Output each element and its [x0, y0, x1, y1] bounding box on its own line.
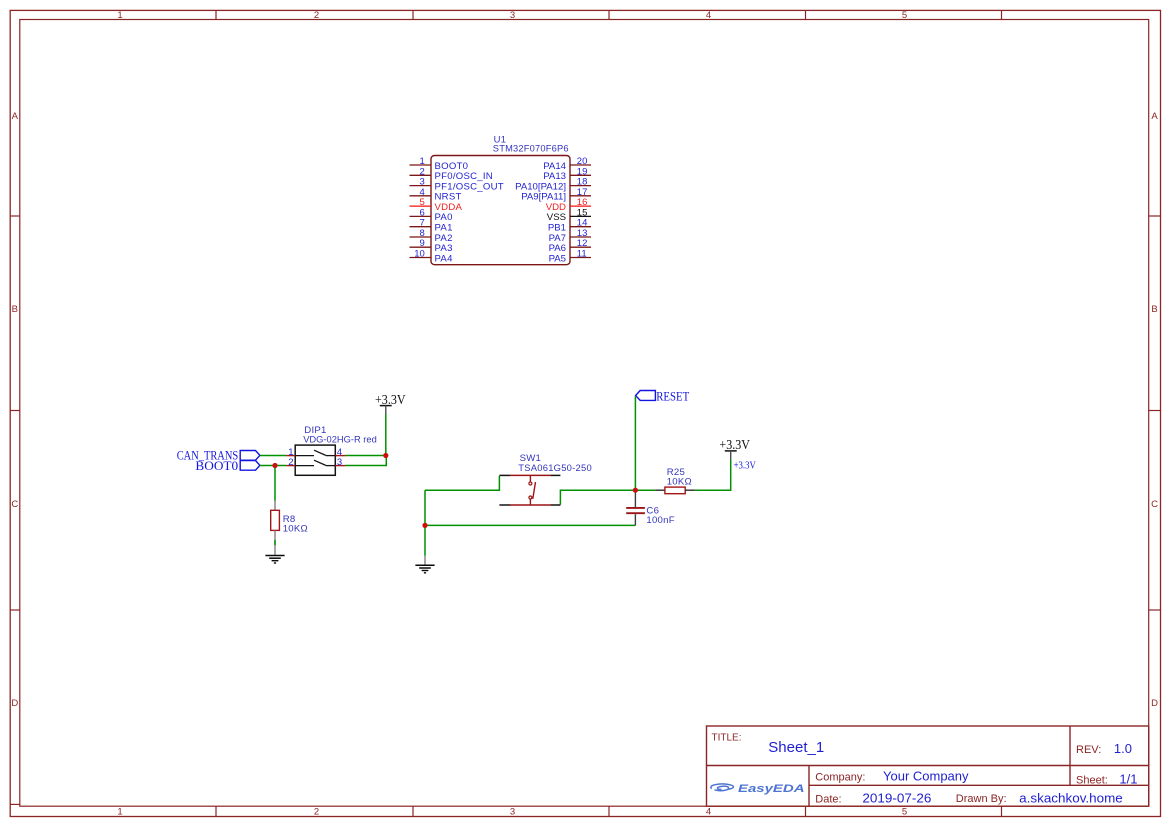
U1 right pin numbers — [577, 156, 588, 260]
svg-text:D: D — [11, 698, 18, 709]
svg-text:Drawn By:: Drawn By: — [956, 793, 1007, 805]
switch SW1 TSA061G50-250 — [499, 453, 592, 505]
svg-text:C: C — [11, 499, 18, 510]
DIP1 pin numbers — [288, 447, 342, 468]
power +3.3V (left) — [375, 392, 406, 414]
SW1 top contact stub and circle — [529, 475, 531, 482]
svg-text:100nF: 100nF — [646, 515, 674, 526]
svg-text:3: 3 — [510, 807, 515, 818]
DIP1 body — [295, 445, 335, 475]
svg-text:a.skachkov.home: a.skachkov.home — [1019, 790, 1123, 805]
svg-text:B: B — [1151, 304, 1157, 315]
power +3.3V (right) — [719, 437, 750, 460]
svg-text:5: 5 — [902, 807, 907, 818]
svg-text:4: 4 — [706, 807, 711, 818]
R25 right pin — [685, 489, 695, 491]
wire R25 to +3.3V — [695, 460, 731, 491]
DIP1 switch element 1 — [295, 450, 335, 455]
DIP1 pin 4 — [335, 455, 345, 457]
wire fragment on R8 bottom pin — [274, 540, 276, 545]
DIP1 pin 3 — [335, 465, 345, 467]
junction dot at RESET node — [633, 488, 638, 493]
svg-text:Company:: Company: — [815, 771, 865, 783]
DIP1 switch element 2 — [295, 460, 335, 465]
wire BOOT0 to DIP1 pin2 — [260, 465, 287, 467]
R8 bottom pin — [274, 530, 276, 554]
frame row ticks left — [10, 216, 20, 804]
C6 top plate — [626, 507, 645, 509]
svg-text:2: 2 — [314, 10, 319, 21]
svg-text:TSA061G50-250: TSA061G50-250 — [518, 462, 592, 473]
svg-text:1/1: 1/1 — [1119, 771, 1137, 786]
svg-text:C: C — [1151, 499, 1158, 510]
svg-text:4: 4 — [706, 10, 711, 21]
svg-text:+3.3V: +3.3V — [375, 392, 406, 407]
wire junction to R25 — [635, 489, 655, 491]
U1 right pin names — [515, 161, 567, 264]
svg-text:10KΩ: 10KΩ — [667, 476, 692, 487]
svg-text:RESET: RESET — [656, 388, 689, 403]
frame row ticks right — [1149, 216, 1161, 610]
svg-text:A: A — [1151, 111, 1158, 122]
svg-text:B: B — [12, 304, 18, 315]
ground under R8 — [265, 556, 284, 564]
R25 body — [665, 487, 685, 494]
svg-text:Date:: Date: — [815, 794, 841, 806]
wire RESET down to junction — [634, 396, 636, 490]
wire DIP1 pin3 up to junction — [345, 456, 386, 466]
junction dot at DIP1 pin4 node — [383, 453, 388, 458]
svg-text:TITLE:: TITLE: — [712, 733, 742, 744]
C6 bottom plate — [626, 512, 645, 514]
C6 top pin — [634, 490, 636, 507]
SW1 pin 2 stub right top — [551, 474, 561, 476]
wire right of SW1 to junction — [560, 490, 635, 504]
capacitor C6 — [626, 490, 675, 526]
netflag CAN_TRANS — [177, 448, 260, 463]
svg-text:3: 3 — [510, 10, 515, 21]
svg-text:Sheet:: Sheet: — [1076, 774, 1108, 786]
R8 body — [271, 510, 280, 530]
EasyEDA logo — [711, 783, 805, 795]
SW1 top bar — [510, 474, 551, 476]
netflag BOOT0 — [195, 458, 260, 473]
R8 top pin — [274, 501, 276, 511]
frame row letters left — [11, 111, 18, 709]
DIP1 pin 2 — [286, 465, 295, 467]
svg-text:2: 2 — [288, 457, 293, 468]
svg-text:10KΩ: 10KΩ — [283, 523, 308, 534]
svg-text:1: 1 — [117, 807, 122, 818]
svg-text:2: 2 — [314, 807, 319, 818]
svg-text:+3.3V: +3.3V — [734, 460, 757, 471]
resistor R8 — [271, 501, 308, 555]
svg-text:VDG-02HG-R red: VDG-02HG-R red — [303, 434, 377, 445]
U1 body — [431, 156, 570, 265]
wire CAN_TRANS to DIP1 pin1 — [260, 455, 287, 457]
frame column numbers bottom — [117, 807, 907, 818]
SW1 bottom stubs — [499, 504, 510, 506]
svg-text:1: 1 — [117, 10, 122, 21]
switch DIP1 — [286, 425, 376, 475]
U1 left pin names — [435, 161, 504, 264]
frame column numbers top — [117, 10, 907, 21]
wire vertical at x=425 down to ground — [424, 490, 426, 555]
DIP1 pin 1 — [286, 455, 295, 457]
SW1 bottom bar — [510, 504, 551, 506]
SW1 pin 1 stub left top — [499, 474, 510, 476]
wire left of SW1 — [425, 476, 499, 490]
SW1 actuator blade — [533, 482, 536, 499]
svg-text:5: 5 — [902, 10, 907, 21]
wire +3.3V stem down to junction — [385, 414, 387, 456]
svg-text:D: D — [1151, 698, 1158, 709]
junction dot at C6 bottom node — [422, 523, 427, 528]
netflag RESET — [636, 388, 690, 403]
R25 left pin — [655, 489, 665, 491]
frame row letters right — [1151, 111, 1158, 709]
frame column ticks bottom — [216, 806, 1002, 816]
junction dot on BOOT0 wire — [272, 463, 277, 468]
svg-text:2019-07-26: 2019-07-26 — [862, 791, 931, 806]
svg-text:EasyEDA: EasyEDA — [738, 783, 805, 795]
wire BOOT0 down to R8 — [274, 466, 276, 501]
svg-text:A: A — [12, 111, 19, 122]
svg-text:1.0: 1.0 — [1114, 741, 1132, 756]
U1 left pin lines 1-10 — [410, 165, 432, 258]
svg-text:PA4: PA4 — [435, 253, 454, 264]
wire C6 bottom horizontal — [425, 524, 635, 526]
svg-text:+3.3V: +3.3V — [719, 437, 750, 452]
ground under x=425 — [415, 556, 434, 573]
IC U1 STM32F070F6P6 — [431, 134, 570, 264]
title block — [707, 726, 1149, 806]
resistor R25 — [635, 467, 695, 494]
svg-text:3: 3 — [337, 457, 342, 468]
svg-text:10: 10 — [414, 249, 425, 260]
svg-text:Your Company: Your Company — [883, 768, 969, 783]
svg-text:PA5: PA5 — [549, 253, 566, 264]
svg-text:STM32F070F6P6: STM32F070F6P6 — [493, 144, 569, 154]
U1 right pin lines 20-11 — [570, 165, 591, 258]
svg-text:Sheet_1: Sheet_1 — [768, 739, 824, 756]
wire DIP1 pin4 to +3.3V junction — [345, 455, 385, 457]
C6 bottom pin — [634, 514, 636, 525]
frame column ticks top — [216, 10, 1002, 19]
svg-text:BOOT0: BOOT0 — [195, 458, 238, 473]
SW1 bottom contact stub and circle — [529, 496, 532, 499]
svg-text:11: 11 — [577, 249, 587, 260]
svg-text:REV:: REV: — [1076, 744, 1101, 756]
U1 left pin numbers — [414, 156, 425, 260]
